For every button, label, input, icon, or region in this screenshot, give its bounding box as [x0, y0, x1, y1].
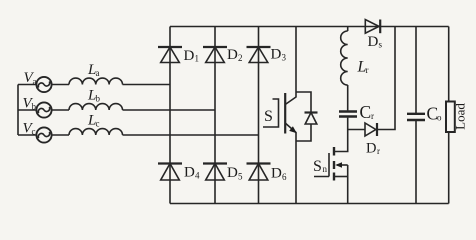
- load resistor box: [446, 102, 455, 133]
- wire phase C: [18, 134, 259, 136]
- svg-text:S: S: [264, 108, 273, 125]
- diode D5: [203, 164, 227, 181]
- MOSFET Sn channel bars: [333, 147, 335, 181]
- antiparallel diode of S: symbol: [305, 113, 318, 125]
- svg-text:S: S: [313, 158, 322, 175]
- wire source interconnect: [17, 85, 19, 136]
- IGBT S collector wire: [285, 27, 296, 105]
- svg-text:r: r: [366, 65, 369, 75]
- MOSFET Sn body arrow wire: [337, 164, 348, 166]
- svg-text:s: s: [379, 40, 383, 50]
- wire load branch bottom: [448, 132, 450, 204]
- wire Dr to top rail: [377, 27, 395, 130]
- svg-text:2: 2: [238, 53, 243, 63]
- wire bridge leg 1: [169, 27, 171, 204]
- wire bridge leg 3: [258, 27, 260, 204]
- svg-text:C: C: [360, 102, 372, 122]
- svg-text:D: D: [184, 48, 195, 64]
- svg-text:o: o: [437, 113, 442, 123]
- wire phase B: [18, 109, 215, 111]
- diode D4: [158, 164, 182, 181]
- IGBT S body bar: [284, 93, 286, 134]
- wire bridge leg 2: [214, 27, 216, 204]
- IGBT S gate: [263, 99, 279, 127]
- diode D1: [158, 47, 182, 63]
- svg-text:n: n: [323, 164, 328, 174]
- diode D2: [203, 47, 227, 63]
- svg-text:3: 3: [282, 53, 287, 63]
- inductor Lb: [69, 104, 123, 110]
- svg-text:r: r: [371, 111, 374, 121]
- svg-text:D: D: [184, 165, 195, 181]
- svg-text:Load: Load: [452, 103, 467, 130]
- inductor Lc: [69, 129, 123, 135]
- wire Lr to Cr: [347, 85, 349, 110]
- wire Co branch bottom: [415, 121, 417, 204]
- svg-text:D: D: [227, 47, 238, 63]
- source Vc: [36, 127, 51, 142]
- inductor La: [69, 78, 123, 84]
- inductor Lr: [341, 31, 348, 85]
- MOSFET Sn source wire to bottom rail: [347, 165, 349, 204]
- wire Co branch top: [415, 27, 417, 114]
- IGBT S emitter wire: [285, 123, 296, 204]
- capacitor Co: [407, 114, 425, 120]
- MOSFET Sn gate: [314, 153, 329, 177]
- svg-text:D: D: [227, 165, 238, 181]
- diode D6: [247, 164, 271, 181]
- wire top DC rail: [170, 26, 449, 28]
- diode Dr: [365, 123, 377, 136]
- svg-text:D: D: [271, 166, 282, 182]
- MOSFET Sn source lead: [334, 176, 348, 178]
- wire node to Dr: [348, 129, 365, 131]
- wire Cr to Sn drain: [334, 118, 348, 152]
- svg-text:b: b: [96, 94, 101, 104]
- svg-text:5: 5: [238, 172, 243, 182]
- svg-text:a: a: [96, 68, 100, 78]
- wire load branch top: [448, 27, 450, 102]
- antiparallel diode of S: loop wires: [296, 92, 311, 141]
- source Vb: [36, 102, 51, 117]
- svg-text:r: r: [377, 146, 380, 156]
- svg-text:b: b: [32, 102, 37, 112]
- diode D3: [247, 47, 271, 63]
- IGBT S emitter arrow: [289, 126, 297, 133]
- svg-text:1: 1: [195, 54, 200, 64]
- svg-text:D: D: [271, 47, 282, 63]
- svg-text:D: D: [368, 34, 379, 50]
- svg-text:4: 4: [195, 171, 200, 181]
- svg-text:c: c: [32, 127, 36, 137]
- source Va: [36, 77, 51, 92]
- diode Ds: [365, 20, 380, 34]
- resonant branch wire from top rail: [347, 27, 349, 32]
- svg-text:a: a: [33, 77, 37, 87]
- svg-text:6: 6: [282, 172, 287, 182]
- wire phase A: [18, 84, 170, 86]
- capacitor Cr: [339, 112, 357, 117]
- wire bottom DC rail: [170, 203, 449, 205]
- svg-text:c: c: [96, 119, 100, 129]
- MOSFET Sn body arrowhead: [335, 162, 342, 168]
- svg-text:D: D: [366, 141, 376, 157]
